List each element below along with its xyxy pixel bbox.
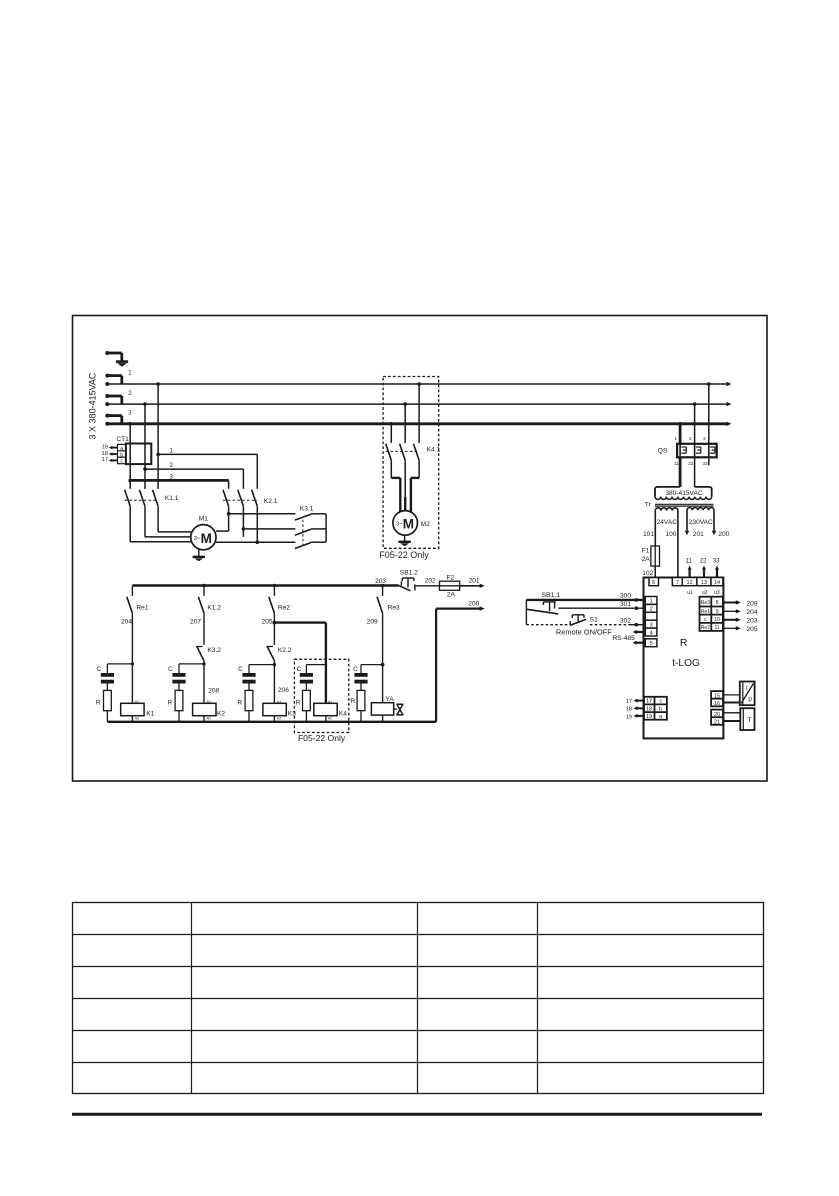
svg-text:205: 205 (262, 619, 273, 626)
phase input terminal L3 (105, 410, 132, 425)
svg-text:S1: S1 (590, 616, 599, 623)
svg-text:QS: QS (658, 448, 668, 455)
wire 205 (262, 613, 277, 645)
svg-text:4: 4 (650, 630, 653, 636)
ground M1 (193, 550, 205, 562)
svg-text:SB1.2: SB1.2 (400, 570, 418, 577)
wire 203 output (723, 618, 757, 625)
svg-text:17: 17 (626, 699, 632, 705)
phase input terminal L2 (105, 391, 132, 406)
svg-text:208: 208 (208, 688, 219, 695)
svg-text:K1.1: K1.1 (165, 495, 179, 502)
wire 204 (121, 613, 134, 703)
node 2 wire to K2.1 (143, 463, 243, 489)
capacitor C (K4 snubber) (297, 665, 326, 691)
svg-text:11: 11 (674, 461, 679, 466)
relay contact Re3 (377, 586, 400, 614)
relay contact Re1 (127, 586, 149, 614)
wire 200 bottom rail (107, 609, 436, 722)
svg-text:R: R (350, 698, 355, 705)
svg-text:24VAC: 24VAC (657, 519, 678, 526)
wire to S1 (526, 609, 570, 624)
wires buses to QS (674, 384, 708, 444)
RS-485 port stubs (612, 630, 643, 645)
svg-text:C: C (97, 666, 102, 673)
fuse F1 2A (642, 546, 660, 566)
svg-text:301: 301 (620, 601, 631, 608)
svg-text:209: 209 (367, 619, 378, 626)
svg-text:M2: M2 (421, 521, 430, 528)
wire 201 to transformer (460, 578, 485, 588)
svg-text:u1: u1 (687, 590, 693, 596)
svg-text:10: 10 (714, 617, 720, 623)
svg-text:12: 12 (687, 580, 693, 586)
svg-text:201: 201 (693, 531, 704, 538)
schematic border frame (73, 316, 768, 782)
svg-text:K1.2: K1.2 (207, 605, 221, 612)
motor M2 (393, 511, 430, 536)
controller t-LOG box (644, 578, 724, 739)
svg-text:u3: u3 (714, 590, 720, 596)
svg-text:Re1: Re1 (701, 609, 710, 615)
svg-text:Re3: Re3 (701, 600, 710, 606)
svg-text:7: 7 (676, 580, 679, 586)
contactor aux contact K3.2 (196, 647, 221, 661)
dashed box F05-22 Only (control) (294, 659, 348, 743)
wire 33 sense input (713, 558, 720, 577)
valve symbol (394, 704, 403, 715)
svg-text:8: 8 (716, 600, 719, 606)
svg-text:F1: F1 (642, 547, 650, 554)
svg-text:22: 22 (688, 461, 694, 466)
svg-text:2A: 2A (447, 591, 456, 598)
wire 209 output (723, 600, 757, 607)
svg-text:203: 203 (375, 578, 386, 585)
svg-text:C: C (168, 666, 173, 673)
contactor K2.1 main contacts (223, 490, 278, 507)
wire bus L2 (107, 402, 731, 406)
wire 22 sense input (700, 558, 707, 577)
svg-text:A1: A1 (277, 700, 282, 704)
wire 300 (526, 593, 643, 602)
svg-text:300: 300 (620, 593, 631, 600)
wire 100 label (665, 531, 676, 538)
wire 200 from 230VAC (712, 510, 730, 538)
wire 205 branch to K4 (274, 623, 326, 704)
resistor R (K3 snubber) (238, 690, 253, 721)
svg-text:202: 202 (425, 578, 436, 585)
wire 207 (190, 613, 204, 645)
terminal 14 (711, 578, 723, 587)
transformer secondary 230VAC (687, 508, 714, 527)
current transformer CT1 (116, 436, 151, 465)
svg-text:b: b (659, 706, 662, 712)
svg-text:Re2: Re2 (278, 605, 290, 612)
svg-text:21: 21 (714, 719, 720, 725)
ground PE (116, 362, 128, 367)
svg-text:22: 22 (700, 558, 707, 564)
svg-text:9: 9 (716, 609, 719, 615)
wire 20 to T sensor (723, 712, 740, 714)
resistor R (YA snubber) (350, 690, 364, 721)
terminal 7 (672, 578, 682, 587)
resistor R (K1 snubber) (96, 690, 111, 721)
svg-text:3 X 380-415VAC: 3 X 380-415VAC (88, 372, 98, 439)
wires QS to transformer (680, 457, 709, 487)
svg-text:11: 11 (714, 625, 719, 631)
contactor K1.1 main contacts (125, 490, 179, 507)
node bus junctions (128, 382, 710, 425)
wire 200 to transformer (436, 600, 485, 610)
svg-text:204: 204 (747, 609, 758, 616)
wire 203 control rail (132, 578, 398, 587)
svg-text:F2: F2 (447, 574, 455, 581)
svg-text:K1: K1 (146, 710, 154, 717)
svg-text:c: c (659, 699, 662, 705)
svg-text:204: 204 (121, 619, 132, 626)
wire 101 label (643, 531, 654, 538)
svg-text:T: T (747, 717, 751, 724)
disconnect switch QS (658, 444, 717, 458)
svg-text:P: P (748, 698, 752, 704)
solenoid valve coil YA (371, 696, 394, 722)
svg-text:u2: u2 (702, 590, 708, 596)
svg-text:203: 203 (747, 618, 758, 625)
wire L3 drop to K1.1 (129, 424, 131, 489)
wire 202 (415, 578, 440, 586)
svg-text:A1: A1 (207, 700, 212, 704)
svg-text:R: R (96, 700, 101, 707)
node 3 wire to K2.1 (128, 475, 228, 489)
wire 18 input (626, 706, 644, 712)
wire 21 to T sensor (723, 720, 740, 722)
svg-text:A2: A2 (135, 717, 140, 721)
svg-text:F05-22 Only: F05-22 Only (379, 550, 429, 560)
wires K1.1 to M1 (130, 506, 191, 542)
svg-text:F05-22 Only: F05-22 Only (298, 733, 346, 743)
svg-text:2A: 2A (642, 556, 651, 563)
svg-text:R: R (168, 700, 173, 707)
svg-text:18: 18 (102, 451, 108, 457)
svg-text:100: 100 (665, 531, 676, 538)
svg-text:380-415VAC: 380-415VAC (665, 490, 703, 497)
phase input terminal L1 (105, 370, 132, 386)
svg-text:200: 200 (718, 531, 729, 538)
terminal block 20 21 (711, 710, 723, 726)
svg-text:230VAC: 230VAC (689, 519, 713, 526)
dashed box F05-22 Only (power) (379, 377, 438, 561)
svg-text:206: 206 (278, 687, 289, 694)
capacitor C (YA snubber) (353, 665, 382, 691)
legend table (73, 903, 764, 1094)
svg-text:t-LOG: t-LOG (672, 658, 700, 669)
pushbutton SB1.2 (399, 570, 418, 591)
motor M1 (191, 516, 216, 550)
svg-text:b: b (120, 452, 123, 458)
switch S1 Remote ON/OFF (556, 615, 612, 637)
svg-text:207: 207 (190, 619, 201, 626)
relay contact Re2 (269, 586, 291, 614)
wire bus L1 (107, 382, 731, 386)
node 1 wire to K2.1 (156, 449, 257, 489)
svg-text:CT1: CT1 (116, 436, 129, 443)
QS output pin labels 11 22 33 (674, 461, 708, 466)
wire bus L3 (107, 422, 731, 426)
svg-text:Tr: Tr (645, 501, 652, 508)
wire 302 (590, 618, 644, 627)
svg-text:A2: A2 (328, 717, 333, 721)
CT input terminal block 17 18 19 (644, 697, 667, 720)
svg-text:200: 200 (468, 600, 479, 607)
transformer secondary 24VAC (655, 508, 678, 578)
svg-text:18: 18 (646, 706, 652, 712)
ground M2 (398, 535, 410, 546)
svg-text:14: 14 (714, 580, 720, 586)
svg-text:RS-485: RS-485 (612, 635, 635, 642)
svg-text:SB1.1: SB1.1 (542, 592, 561, 599)
capacitor C (K3 snubber) (238, 665, 274, 691)
svg-text:C: C (353, 666, 358, 673)
transformer core (655, 504, 714, 506)
terminals 1-5 left (645, 597, 657, 648)
svg-text:R: R (296, 700, 301, 707)
contactor aux contact K2.2 (266, 647, 291, 661)
svg-text:K2: K2 (217, 710, 225, 717)
svg-text:11: 11 (686, 558, 693, 564)
terminal 13 (697, 578, 711, 587)
svg-text:Re2: Re2 (701, 625, 710, 631)
PE earth input connector (105, 351, 122, 361)
pushbutton SB1.1 (526, 592, 560, 614)
svg-text:18: 18 (626, 707, 632, 713)
wires buses to K4.1 (391, 384, 419, 443)
wire 201 from 230VAC (685, 510, 704, 538)
label 3 X 380-415VAC supply (88, 372, 98, 439)
svg-text:17: 17 (102, 457, 108, 463)
svg-text:209: 209 (747, 600, 758, 607)
wire 16 to I/P (723, 702, 740, 704)
temperature sensor T (740, 708, 754, 730)
svg-text:K4.1: K4.1 (427, 447, 441, 454)
svg-text:205: 205 (747, 626, 758, 633)
svg-text:19: 19 (102, 444, 108, 450)
footer rule (72, 1113, 762, 1116)
fuse F2 2A (440, 574, 460, 598)
wires K2.1 to M1 and K3.1 (216, 506, 295, 544)
svg-text:13: 13 (701, 580, 707, 586)
capacitor C (K2 snubber) (168, 664, 204, 691)
svg-text:A1: A1 (328, 700, 333, 704)
svg-text:a: a (120, 446, 123, 452)
svg-text:Re3: Re3 (388, 605, 400, 612)
CT1 secondary stubs 19 18 17 (102, 444, 118, 463)
svg-text:Remote ON/OFF: Remote ON/OFF (556, 627, 612, 636)
svg-text:K4: K4 (339, 710, 347, 717)
svg-text:5: 5 (650, 641, 653, 647)
svg-text:201: 201 (469, 578, 480, 585)
relay output terminal block (700, 597, 723, 631)
svg-text:101: 101 (643, 531, 654, 538)
wire 102 to terminal 6 (642, 566, 655, 577)
capacitor C (K1 snubber) (97, 664, 133, 691)
svg-text:16: 16 (714, 701, 720, 707)
svg-text:K3.1: K3.1 (300, 505, 314, 512)
wire 205 output (723, 626, 757, 633)
wire L2 drop to K1.1 (144, 404, 146, 489)
wire 17 input (626, 699, 644, 705)
svg-text:20: 20 (714, 712, 720, 718)
svg-text:K2.2: K2.2 (278, 647, 292, 654)
wire 209 (367, 613, 385, 702)
svg-text:Re1: Re1 (136, 605, 148, 612)
svg-text:A1: A1 (135, 700, 140, 704)
terminal 6 (649, 578, 659, 587)
svg-text:M: M (201, 531, 212, 546)
svg-text:K2.1: K2.1 (264, 498, 278, 505)
svg-text:17: 17 (646, 699, 652, 705)
terminal block 15 16 (711, 691, 723, 707)
resistor R (K2 snubber) (168, 690, 183, 721)
wires K4.1 to M2 (391, 460, 419, 513)
svg-text:C: C (238, 666, 243, 673)
wire 206 (273, 661, 290, 704)
svg-text:19: 19 (646, 714, 652, 720)
relay coil K4 (314, 700, 347, 722)
svg-text:A2: A2 (277, 717, 282, 721)
wire 208 (202, 661, 219, 704)
relay coil K1 (121, 700, 155, 722)
svg-text:M: M (403, 517, 414, 532)
svg-text:102: 102 (642, 570, 653, 577)
transformer Tr primary 380-415VAC (645, 487, 712, 509)
wire 11 sense input (686, 558, 693, 577)
svg-text:33: 33 (713, 558, 720, 564)
resistor R (K4 snubber) (296, 690, 311, 721)
wire 204 output (723, 609, 757, 616)
svg-text:33: 33 (702, 461, 708, 466)
relay coil K2 (193, 700, 226, 722)
svg-text:15: 15 (714, 693, 720, 699)
wire 19 input (626, 714, 644, 720)
transducer I/P (740, 682, 755, 706)
wire L1 drop to K1.1 (157, 384, 159, 489)
svg-text:302: 302 (620, 618, 631, 625)
svg-text:C: C (297, 666, 302, 673)
svg-text:YA: YA (386, 696, 395, 703)
contactor aux contact K1.2 (198, 586, 221, 614)
relay coil K3 (263, 700, 296, 722)
terminal 12 (682, 578, 697, 587)
svg-text:K3.2: K3.2 (207, 647, 221, 654)
contactor K4.1 main contacts (386, 444, 441, 461)
wire 301 (558, 601, 643, 610)
svg-text:M1: M1 (199, 516, 208, 523)
wire 15 to I/P (723, 694, 740, 696)
svg-text:R: R (238, 700, 243, 707)
svg-text:6: 6 (652, 580, 655, 586)
svg-text:19: 19 (626, 714, 632, 720)
wire 100 into terminal 7 label u labels (687, 590, 720, 596)
contactor K3.1 star contacts (295, 505, 326, 548)
svg-text:A2: A2 (207, 717, 212, 721)
svg-text:R: R (680, 637, 688, 649)
